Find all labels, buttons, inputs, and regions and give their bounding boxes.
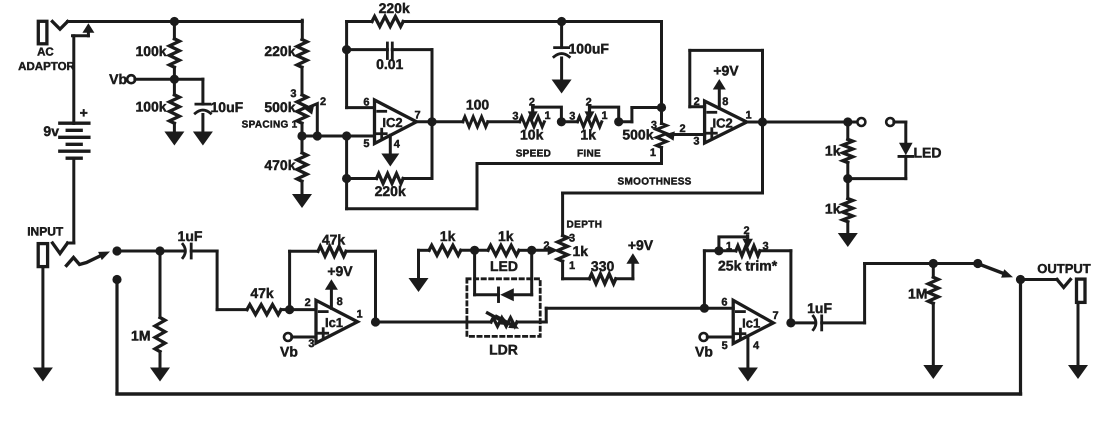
svg-text:8: 8 (722, 96, 728, 108)
terminal LED jack B (886, 118, 906, 143)
resistor 1k LED parallel (475, 228, 532, 255)
node 25k trim pin1 (714, 246, 723, 255)
switch output bypass (980, 265, 1013, 278)
power +9V IC2b pin8 (713, 62, 740, 108)
svg-text:2: 2 (305, 297, 311, 309)
svg-text:500k: 500k (264, 99, 295, 115)
node IC1b pin6 (700, 304, 709, 313)
battery 9v (43, 105, 88, 159)
wire node B down (660, 22, 663, 124)
svg-text:3: 3 (693, 136, 699, 148)
power +9V IC1a pin8 (325, 263, 353, 309)
wire IC1b pin6 stub (704, 307, 733, 310)
svg-text:LDR: LDR (489, 342, 518, 358)
node Vb IC1a pin3 (280, 333, 316, 360)
wire bypass right vertical (1019, 280, 1022, 395)
terminal LED jack A (857, 118, 865, 126)
svg-text:DEPTH: DEPTH (567, 220, 603, 231)
svg-text:2: 2 (586, 97, 592, 109)
svg-text:Vb: Vb (280, 344, 298, 360)
svg-text:1k: 1k (498, 228, 514, 244)
terminal Vb (109, 71, 174, 87)
svg-text:330: 330 (591, 258, 615, 274)
svg-text:1k: 1k (580, 127, 596, 143)
wire output jack sleeve (1077, 302, 1080, 365)
wire output riser (865, 264, 934, 323)
diode LED optocoupler (499, 288, 514, 302)
svg-text:Ic1: Ic1 (742, 315, 760, 330)
capacitor 0.01 (347, 43, 432, 72)
resistor 47k feedback (318, 232, 346, 257)
svg-text:220k: 220k (375, 183, 406, 199)
svg-text:1k: 1k (825, 201, 841, 217)
wire input node (117, 250, 160, 253)
ground output jack (1068, 365, 1088, 379)
svg-text:+9V: +9V (327, 263, 353, 279)
node IC2b output (758, 117, 767, 126)
resistor 100k upper (135, 22, 179, 80)
resistor 1k LED left (419, 228, 475, 255)
potentiometer 500k SPACING (242, 88, 326, 136)
svg-text:IC2: IC2 (712, 115, 732, 130)
label LED optocoupler (490, 258, 518, 274)
capacitor 10uF (174, 79, 243, 131)
wire IC2a output (417, 120, 463, 123)
svg-text:3: 3 (308, 338, 314, 350)
INPUT jack (27, 225, 67, 267)
node LED divider junction (843, 174, 852, 183)
svg-text:4: 4 (394, 139, 401, 151)
node Vb divider (170, 75, 179, 84)
svg-text:LED: LED (490, 258, 518, 274)
wire LDR to IC1b pin6 (517, 308, 704, 322)
node IC1a output (371, 317, 380, 326)
wire IC2b feedback box (690, 50, 763, 122)
ground 470k (292, 194, 312, 208)
svg-text:8: 8 (337, 296, 343, 308)
resistor 1k indicator top (825, 122, 853, 179)
ground LED divider (838, 233, 858, 247)
svg-text:1: 1 (602, 110, 608, 122)
node pin5 junction (342, 131, 351, 140)
svg-text:1: 1 (745, 109, 751, 121)
svg-text:1uF: 1uF (178, 228, 203, 244)
svg-text:1M: 1M (908, 286, 927, 302)
svg-text:220k: 220k (264, 43, 295, 59)
svg-text:5: 5 (722, 340, 728, 352)
potentiometer 1k FINE (569, 97, 618, 160)
svg-text:4: 4 (753, 340, 760, 352)
wire to output switch (933, 262, 978, 265)
wire IC2b output (747, 121, 848, 124)
capacitor 1uF input (160, 228, 217, 258)
node output switch pole (973, 259, 982, 268)
svg-text:25k trim*: 25k trim* (718, 258, 778, 274)
wire battery minus to input jack (68, 158, 74, 243)
svg-text:7: 7 (772, 310, 778, 322)
wire battery plus to rail (switched) (73, 23, 95, 123)
resistor 1M input (131, 251, 165, 368)
resistor 220k osc top (347, 0, 662, 27)
svg-text:2: 2 (543, 240, 549, 252)
resistor 470k (264, 136, 307, 194)
LDR photoresistor (488, 313, 520, 358)
node input 1M junction (155, 246, 164, 255)
op-amp IC2a (363, 96, 420, 150)
node osc fb lower (342, 174, 351, 183)
wire +9V top rail (68, 20, 303, 39)
svg-text:3: 3 (512, 110, 518, 122)
svg-text:100k: 100k (135, 43, 166, 59)
svg-text:IC2: IC2 (382, 115, 402, 130)
node 1k wiper junction (614, 117, 623, 126)
wire osc fb vertical (431, 50, 434, 179)
wire LED to divider (848, 156, 906, 178)
wire DEPTH pin1 to 330 (563, 261, 590, 279)
wire 47k feedback loop (290, 251, 376, 322)
node Vb IC1b pin5 (695, 333, 733, 360)
svg-text:INPUT: INPUT (27, 225, 64, 239)
svg-text:1k: 1k (573, 243, 589, 259)
node IC2a output (427, 117, 436, 126)
node switch throw lower (112, 275, 121, 284)
node B osc (657, 103, 666, 112)
op-amp IC1a (305, 297, 363, 350)
svg-text:2: 2 (680, 123, 686, 135)
svg-text:ADAPTOR: ADAPTOR (18, 61, 75, 73)
ground IC2a pin4 (381, 135, 399, 166)
wire 100 to 10k (488, 120, 520, 123)
ground 1M output (923, 365, 943, 379)
svg-text:SMOOTHNESS: SMOOTHNESS (618, 177, 692, 188)
svg-text:2: 2 (743, 225, 749, 237)
node IC2a pin6 node (342, 45, 351, 54)
ground 10uF (193, 132, 213, 146)
wire bypass left vertical (115, 281, 118, 393)
svg-text:1uF: 1uF (807, 300, 832, 316)
svg-text:1M: 1M (131, 328, 150, 344)
wire LED junction to DEPTH wiper (532, 246, 559, 256)
wire to IC1 pin2 (290, 308, 316, 311)
wire trim node down (704, 251, 719, 308)
svg-text:+9V: +9V (713, 62, 739, 78)
node spacing wiper (313, 131, 322, 140)
svg-text:9v: 9v (43, 123, 59, 139)
svg-text:Ic1: Ic1 (325, 315, 343, 330)
wire smoothness pin1 route (347, 148, 662, 209)
svg-text:+: + (80, 105, 88, 121)
potentiometer 1k DEPTH (543, 220, 602, 272)
svg-text:1: 1 (569, 260, 575, 272)
wire 10k to 1k (561, 120, 577, 123)
wire DEPTH pin3 to IC2b output (563, 122, 763, 236)
node spacing pin1 (297, 131, 306, 140)
ground input jack (33, 368, 53, 382)
node 10k wiper junction (557, 117, 566, 126)
svg-text:2: 2 (320, 96, 326, 108)
wire bypass bottom rail (117, 392, 1021, 395)
svg-text:LED: LED (914, 144, 942, 160)
node IC1 pin2 (285, 305, 294, 314)
wire spacing node to IC2a pin5 (302, 123, 375, 136)
svg-text:Vb: Vb (695, 344, 713, 360)
svg-text:1: 1 (726, 240, 732, 252)
resistor 100 (463, 97, 490, 127)
svg-text:AC: AC (37, 47, 54, 59)
wire LED anode branch (514, 250, 532, 294)
svg-text:7: 7 (414, 109, 420, 121)
potentiometer 500k SMOOTHNESS (618, 120, 705, 188)
OUTPUT jack (1021, 261, 1091, 302)
wire fine to node B (619, 108, 662, 122)
resistor 1k indicator bottom (825, 179, 853, 233)
wire IC1a output to LDR (376, 321, 492, 324)
AC adaptor jack (18, 21, 75, 73)
svg-text:1k: 1k (825, 143, 841, 159)
svg-text:5: 5 (363, 138, 369, 150)
svg-text:10k: 10k (520, 127, 544, 143)
node 1M output junction (929, 259, 938, 268)
svg-text:500k: 500k (622, 127, 653, 143)
svg-text:47k: 47k (250, 285, 274, 301)
svg-text:3: 3 (763, 240, 769, 252)
diode LED indicator (899, 143, 942, 161)
ground 1M input (150, 368, 170, 382)
wire LED cathode branch (475, 250, 499, 294)
wire pin6 vertical (347, 22, 375, 108)
capacitor 100uF (554, 17, 610, 80)
trimpot 25k (718, 225, 791, 273)
svg-text:470k: 470k (264, 157, 295, 173)
node IC1b output (786, 318, 795, 327)
svg-text:10uF: 10uF (211, 99, 244, 115)
op-amp IC2b (693, 96, 751, 147)
svg-text:OUTPUT: OUTPUT (1037, 261, 1091, 276)
svg-text:1: 1 (650, 147, 656, 159)
ground 1k LED row (409, 250, 429, 292)
svg-text:100: 100 (466, 97, 490, 113)
node output jack junction (1016, 275, 1025, 284)
svg-text:3: 3 (569, 110, 575, 122)
svg-text:100k: 100k (135, 99, 166, 115)
svg-text:0.01: 0.01 (376, 56, 403, 72)
ground 100k lower (164, 132, 184, 146)
svg-text:1: 1 (545, 110, 551, 122)
svg-text:6: 6 (721, 296, 727, 308)
svg-text:Vb: Vb (109, 71, 127, 87)
svg-text:6: 6 (363, 96, 369, 108)
optocoupler dotted box (467, 279, 540, 337)
wire input jack sleeve to ground (41, 267, 44, 368)
resistor 330 (589, 258, 615, 284)
node switch throw upper (112, 246, 121, 255)
svg-text:1: 1 (356, 309, 362, 321)
switch input bypass (67, 252, 111, 266)
resistor 220k spacing (264, 40, 307, 95)
ground IC1b pin4 (738, 336, 758, 382)
svg-text:1k: 1k (440, 228, 456, 244)
svg-text:2: 2 (529, 97, 535, 109)
node LED cathode junction (470, 246, 479, 255)
op-amp IC1b (721, 296, 778, 352)
resistor 47k input (247, 285, 290, 315)
svg-text:100uF: 100uF (569, 41, 610, 57)
node LED 1k junction (843, 117, 857, 126)
svg-text:47k: 47k (322, 232, 346, 248)
wire pin5 vertical (345, 136, 348, 209)
node LED anode junction (527, 246, 536, 255)
svg-text:FINE: FINE (577, 149, 601, 160)
svg-text:220k: 220k (379, 0, 410, 16)
svg-text:SPACING 1: SPACING 1 (242, 119, 298, 130)
capacitor 1uF output (791, 300, 865, 330)
svg-text:+9V: +9V (628, 237, 654, 253)
ground 100uF (552, 80, 572, 94)
wire 1uF to 47k (217, 251, 247, 310)
resistor 1M output (908, 264, 938, 366)
power +9V via 330 (616, 237, 654, 279)
node top-rail junction (170, 17, 179, 26)
wire 25k pin3 to output (789, 251, 792, 323)
resistor 220k osc bottom (347, 174, 432, 200)
potentiometer 10k SPEED (512, 97, 561, 160)
resistor 100k lower (135, 79, 179, 131)
svg-text:SPEED: SPEED (516, 149, 551, 160)
